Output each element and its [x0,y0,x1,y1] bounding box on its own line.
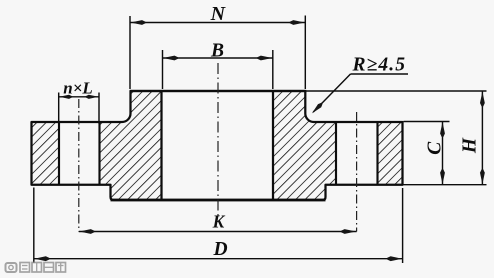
dimension D extension lines [33,188,35,264]
dimension B extension lines [162,50,164,89]
top extension line for H [306,90,487,92]
svg-text:n×L: n×L [63,79,93,98]
dimension K line [79,231,357,233]
right bolt hole center line [356,112,358,232]
left bolt hole left wall [58,122,60,185]
leader R>=4.5 [351,73,409,75]
main center line [217,63,219,219]
hatch left rim [32,122,60,185]
bore left wall [160,91,162,200]
left bolt hole center line [78,99,80,232]
svg-text:B: B [210,40,224,61]
dimension N extension lines [129,16,131,89]
svg-text:C: C [424,141,445,155]
bottom extension line for C and H [404,184,487,186]
hatch right rim [378,122,403,185]
dimension B line [163,57,273,59]
dimension D line [34,258,403,260]
dimension H line [481,91,483,185]
bottom face edge [111,199,326,202]
svg-text:D: D [212,239,227,260]
svg-text:R≥4.5: R≥4.5 [352,55,407,76]
svg-text:K: K [212,212,226,232]
dimension n×L line [59,96,99,98]
dimension C line [442,122,444,185]
dimension N line [130,22,305,24]
hatch left hub and neck wall [100,91,162,200]
right bolt hole right wall [376,122,378,185]
dimension n×L extension lines [58,93,60,124]
bore right wall [272,91,274,200]
svg-text:N: N [210,3,227,25]
hatch right hub and neck wall [273,91,336,200]
svg-text:H: H [459,137,480,154]
flange body outline [32,91,403,200]
watermark [6,263,66,273]
neck top edge [130,90,307,92]
left bolt hole right wall [98,122,100,185]
right bolt hole left wall [335,122,337,185]
dimension C extension line top [404,121,450,123]
